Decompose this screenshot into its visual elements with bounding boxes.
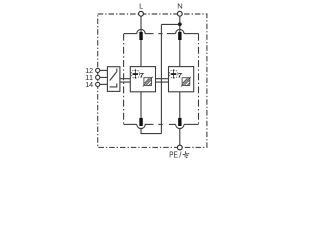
top contact L: left arm to linkage [124,33,137,35]
bottom contact L: pin bar [139,118,142,126]
svg-text:N: N [177,2,182,11]
top contact N: right arm to linkage corner [184,33,199,35]
wire terminal 14 [100,83,107,85]
module L symbol: varistor square [143,77,153,87]
module L symbol: surge arrow (7) [140,73,143,76]
top contact N: pin bar [178,32,181,40]
top contact N: left arm (linkage) [167,33,176,35]
module L symbol: spark gap circle (dashed) [131,70,140,79]
wire terminal 11 [100,76,107,78]
earth symbol in PE label [182,151,190,159]
linkage dash-dot vertical left [123,34,125,125]
wire N-branch horizontal from junction [161,23,179,25]
top contact L: socket arc [137,29,145,33]
FM changeover contact [110,72,117,81]
terminal 11 [96,75,100,79]
module box L (varistor module) [130,67,155,92]
module N symbol: arrowheads [173,70,175,72]
terminal PE [177,145,182,150]
module N symbol: electrode bar [171,73,177,75]
bottom contact N: pin bar [178,118,181,126]
svg-text:L: L [139,2,143,11]
wire N-branch vertical down between modules [160,24,162,133]
wire N terminal to junction [179,16,181,24]
wire N contact into module [179,40,181,67]
module L symbol: electrode bar [133,73,139,75]
terminal L [139,11,144,16]
linkage dashes between top contacts [145,33,154,35]
module N symbol: varistor square [181,77,191,87]
wire N junction to N top contact [179,24,181,32]
wire L terminal to top contact [140,16,142,32]
bottom contact L: socket arc [137,124,145,128]
module N symbol: surge arrow (7) [178,73,181,76]
bottom contact N: left arm (linkage) [169,123,176,125]
FM switch box [107,67,120,92]
linkage dash-dot vertical right [198,34,200,125]
linkage lines FM box to module L [120,79,130,82]
top contact N: socket arc [176,29,184,33]
module box N [169,67,194,92]
bottom contact N: right arm to linkage corner [184,123,199,125]
terminal 14 [96,82,100,86]
wire module N bottom [179,92,181,118]
module N symbol: spark gap circle (dashed) [169,70,178,79]
top contact L: pin bar [139,32,142,40]
svg-text:PE: PE [169,150,178,159]
bottom contact N: socket arc [176,124,184,128]
svg-text:/: / [179,150,182,159]
terminal 12 [96,68,100,72]
linkage lines module L to module N [156,79,169,82]
wire module L bottom [140,92,142,118]
bottom contact L: left arm to linkage corner [124,123,137,125]
wire L bottom contact to N-branch [141,128,161,134]
wire N bottom contact to PE [179,128,181,145]
wire terminal 12 [100,69,107,71]
linkage dashes between bottom contacts [145,123,154,125]
enclosure border (dash-dot rectangle) [98,14,207,147]
terminal N [177,11,182,16]
junction N [178,22,182,26]
svg-text:14: 14 [85,80,93,89]
wire L contact into module [140,40,142,67]
module L symbol: arrowheads [134,70,136,72]
